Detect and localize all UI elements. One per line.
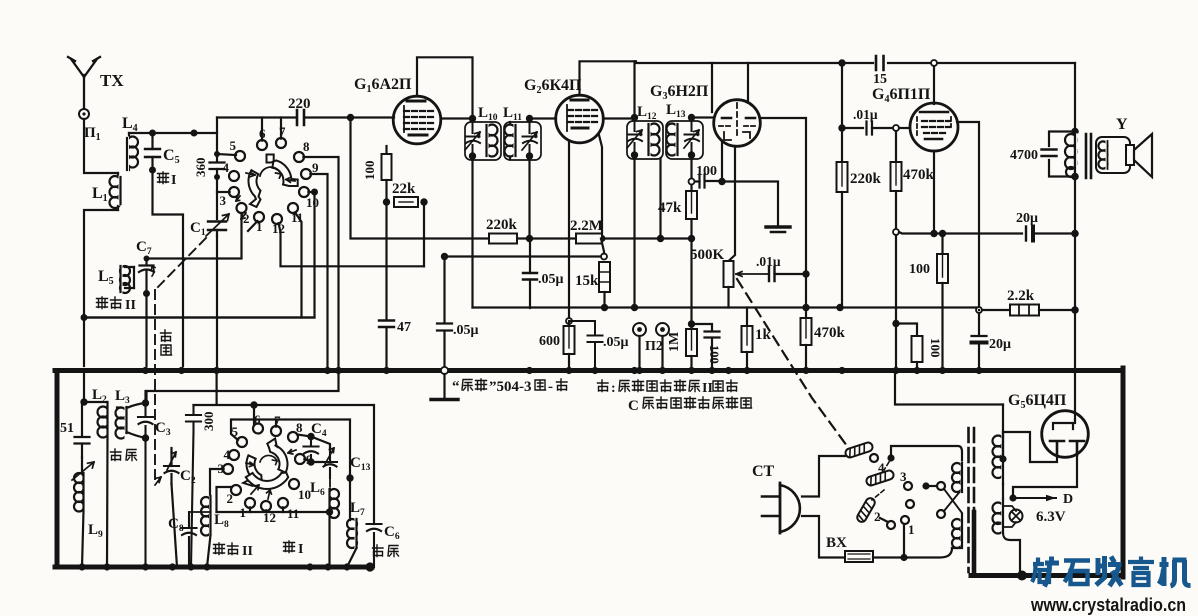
svg-text:TX: TX — [100, 71, 124, 90]
wire antenna down with L1 jog — [84, 119, 118, 366]
crossover wires — [944, 489, 962, 513]
wire L12 bottom down to screen row — [633, 155, 635, 308]
wire contact7' up — [275, 420, 277, 427]
svg-text:I: I — [171, 173, 176, 188]
bus open-circle junction — [441, 367, 448, 374]
node .01u left — [838, 124, 845, 131]
wire node to L2 — [84, 401, 107, 403]
node L10 bottom — [469, 152, 476, 159]
svg-text:470k: 470k — [903, 167, 935, 183]
wire plug top to selector — [802, 456, 845, 497]
wire L11 top to U2 grid — [530, 119, 557, 123]
capacitor C1 variable — [206, 177, 229, 236]
capacitor C6 — [367, 524, 382, 567]
coil L1 — [110, 173, 121, 210]
coil L6 — [329, 470, 339, 567]
watermark kuang shi shou yin ji — [1032, 556, 1191, 587]
resistor 22k — [394, 197, 418, 207]
node C4 top — [307, 433, 314, 440]
svg-text:300: 300 — [201, 412, 216, 432]
svg-text:360: 360 — [193, 158, 208, 178]
HV winding (right of core) — [993, 432, 1004, 484]
svg-text:20μ: 20μ — [1016, 211, 1038, 226]
svg-text:“: “ — [452, 379, 460, 395]
resistor 100 (screen) — [937, 234, 948, 367]
wire L11 bottom down to 220k row — [528, 156, 530, 239]
svg-text:47k: 47k — [658, 200, 682, 216]
wire U3 lower-left pin to 100 node — [721, 143, 723, 182]
node 100 right — [718, 178, 725, 185]
tube U2 internals — [567, 100, 597, 131]
svg-text:3: 3 — [900, 469, 907, 484]
node L12 top — [631, 114, 638, 121]
wire contact2' to L8 — [217, 487, 233, 512]
svg-text:C1: C1 — [190, 220, 206, 238]
junction open circle rail/U4 — [931, 60, 937, 66]
node .01u right — [802, 270, 809, 277]
coil L12 — [649, 124, 660, 156]
ground symbol below bus — [431, 374, 458, 400]
svg-text:100: 100 — [707, 345, 721, 364]
IF transformer T2 frames — [627, 121, 663, 159]
junction open circle cathode row left — [893, 229, 899, 235]
rail junction blob — [1017, 571, 1027, 581]
wire C1 line down to bus — [216, 236, 218, 366]
svg-text:2: 2 — [227, 491, 234, 506]
bottom-right thick rail — [971, 573, 1123, 578]
svg-text:C3: C3 — [155, 420, 171, 438]
svg-text:47: 47 — [397, 320, 411, 335]
trimmer cap L10 — [465, 122, 480, 156]
resistor 1M — [686, 324, 697, 366]
node L5 bottom — [143, 290, 150, 297]
svg-text:Π1: Π1 — [84, 125, 101, 143]
svg-text:22k: 22k — [392, 181, 416, 197]
wire U1 top cap loop to L10 — [417, 57, 473, 115]
tube U1 envelope — [393, 96, 441, 144]
node 51 top — [80, 398, 87, 405]
svg-text:1M: 1M — [667, 332, 682, 352]
T3 core — [1086, 134, 1091, 178]
jack П2 — [633, 323, 646, 366]
node L12 bottom — [631, 151, 638, 158]
node L11 top — [526, 115, 533, 122]
svg-text:II: II — [125, 298, 136, 313]
svg-text:2.2k: 2.2k — [1007, 288, 1035, 304]
coil L7 — [347, 478, 357, 567]
svg-text:L6: L6 — [310, 480, 325, 498]
wire U3 plates up to rail — [712, 63, 748, 112]
output transformer T3 primary — [1065, 128, 1079, 181]
wire fuse to transformer primary bottom — [904, 548, 952, 558]
svg-text:4: 4 — [224, 447, 231, 462]
coil L2 — [98, 402, 109, 567]
svg-text:.01μ: .01μ — [756, 254, 781, 269]
coil L13 — [667, 124, 678, 156]
svg-text:L9: L9 — [88, 522, 103, 540]
node selector 4 — [887, 454, 894, 461]
wire C5 bottom down jog to bus — [153, 170, 184, 366]
transformer primary winding upper — [952, 463, 962, 492]
node 2.2M right — [599, 235, 606, 242]
wire U5 right plate down to filament row — [1013, 455, 1077, 498]
wire 22k right down to AVC row — [423, 202, 425, 266]
tube U5 envelope — [1042, 411, 1089, 458]
transformer core right/chassis — [973, 428, 976, 512]
svg-text:9: 9 — [312, 160, 319, 175]
svg-text:15k: 15k — [575, 273, 599, 289]
node 22k left — [383, 198, 390, 205]
wire contact2 stub — [880, 518, 888, 522]
wire 470k line down to bus — [895, 235, 897, 366]
capacitor 300 — [186, 405, 201, 567]
coil L8 — [201, 496, 211, 567]
svg-text:1: 1 — [908, 522, 915, 537]
svg-text:G16А2П: G16А2П — [354, 76, 412, 95]
wire C7 to switch contact 2 — [147, 212, 242, 259]
label 短I — [158, 172, 177, 188]
rotary switch S1 rotor — [249, 155, 298, 208]
right thick border — [1121, 368, 1126, 577]
wire contact 9 right and down to bus — [310, 174, 327, 366]
wire grid node to U4 — [899, 127, 910, 129]
tube U5 internals — [1050, 423, 1084, 455]
wire L4 top from C5 node to switch area — [129, 132, 217, 134]
wire L10 bottom down to AGC row corner — [471, 156, 473, 308]
svg-text:11: 11 — [287, 506, 299, 521]
svg-text:470k: 470k — [814, 325, 846, 341]
wire contact 6 up — [261, 118, 263, 141]
wire node3 to crossover — [926, 485, 937, 487]
svg-text:www.crystalradio.cn: www.crystalradio.cn — [1030, 595, 1186, 615]
wire rail to U4 top — [933, 66, 935, 104]
resistor 220k — [489, 234, 517, 244]
svg-text:”504-3: ”504-3 — [489, 379, 532, 395]
label note line1 波段开关在短波II位置 — [598, 380, 738, 396]
coil box left border (thick) — [55, 371, 60, 568]
capacitor 220 — [297, 110, 351, 125]
D arrow — [1013, 495, 1056, 501]
svg-text:.05μ: .05μ — [538, 272, 564, 287]
svg-text:C8: C8 — [168, 516, 184, 534]
wire node down through 470k to bus — [805, 274, 807, 318]
coil L4 — [127, 133, 138, 170]
wire U2 cathode bypass: 600 resistor — [564, 321, 575, 366]
capacitor 51 — [75, 402, 90, 458]
svg-text:II: II — [242, 544, 253, 559]
wire contact 8 right and down to lower box — [147, 157, 339, 404]
svg-text:L1: L1 — [92, 185, 108, 204]
node L4 top — [149, 130, 156, 137]
wire filament bottom to blob — [1003, 533, 1020, 576]
svg-text:L8: L8 — [214, 512, 229, 530]
svg-text:220k: 220k — [850, 171, 882, 187]
node 2.2k right on B+ — [1071, 306, 1079, 314]
wire node to G1 grid — [351, 116, 395, 118]
svg-text:-: - — [548, 379, 553, 395]
capacitor 20u (electrolytic to bus) — [972, 336, 987, 366]
capacitor .05u AVC — [437, 257, 452, 367]
svg-text:II: II — [702, 381, 713, 396]
node L3 bottom — [142, 434, 149, 441]
transformer core dashed — [967, 428, 970, 572]
wire node up to contact 1p — [903, 524, 905, 558]
selector labels 4 3 2 1 — [874, 460, 915, 537]
svg-text:L3: L3 — [115, 388, 130, 406]
resistor 2.2k — [982, 305, 1072, 316]
wire 300 top to C1 line corner — [194, 371, 255, 406]
tube U2 envelope — [556, 95, 604, 143]
node cathode row 942 — [939, 230, 946, 237]
wire HV bottom continuation — [1002, 484, 1004, 499]
node input line left — [81, 314, 88, 321]
svg-text:1k: 1k — [755, 327, 772, 343]
selector dashed links — [872, 462, 889, 500]
resistor 2.2M — [576, 234, 602, 244]
wire 979 down to 20u — [978, 310, 980, 334]
wire plug bottom to fuse — [802, 516, 843, 558]
potentiometer 500K — [724, 261, 769, 308]
rotary switch S2 rotor — [243, 439, 288, 490]
svg-text:220k: 220k — [486, 217, 518, 233]
svg-text:I: I — [298, 542, 303, 557]
svg-text:.05μ: .05μ — [603, 335, 629, 350]
transformer primary winding lower — [952, 514, 962, 548]
svg-text:8: 8 — [303, 139, 310, 154]
svg-text:6.3V: 6.3V — [1036, 509, 1066, 525]
wire U2 top cap loop — [580, 61, 637, 95]
wire contact3' to L8 — [210, 469, 224, 496]
wire C4 bottom links — [311, 437, 330, 463]
speaker Y frame and coil — [1096, 137, 1130, 173]
node plate row 47k — [688, 235, 695, 242]
junction open circle 2.2k left — [976, 307, 982, 313]
node 220 right — [347, 114, 354, 121]
wire B+ into cathode — [1074, 420, 1076, 423]
rotary switch S1 contacts — [229, 138, 311, 224]
selector contact circles — [870, 454, 945, 529]
svg-text:G26К4П: G26К4П — [524, 77, 582, 96]
wire 47k node down to detector node — [690, 239, 692, 325]
svg-text:600: 600 — [539, 334, 560, 349]
wire U3 cathode down to 500K — [729, 146, 736, 261]
svg-text:L4: L4 — [122, 115, 138, 134]
wire center tap down to plate row — [659, 159, 661, 239]
trimmer cap L11 — [522, 122, 537, 156]
node П1 terminal — [79, 109, 89, 119]
wire U4 plate right down — [957, 122, 979, 308]
bus junction nodes — [142, 367, 983, 374]
wire contact 1 stub — [248, 221, 258, 231]
wire 15k bottom to screen row — [603, 292, 605, 308]
capacitor 100 (osc) — [692, 175, 720, 188]
node top rail 842 — [838, 59, 845, 66]
selector lever B (hatched) — [865, 469, 894, 486]
wire input line to switch contact 10 — [84, 195, 315, 318]
node L11 bottom junction — [526, 152, 533, 159]
wire antenna line below bus — [83, 371, 85, 403]
trimmer C2 — [164, 452, 179, 484]
coil L9 adjustable — [72, 457, 94, 567]
wire contact9' to C4 bottom — [304, 459, 311, 462]
capacitor C3 — [138, 403, 153, 567]
junction open circle G4 grid — [893, 125, 899, 131]
svg-text:.01μ: .01μ — [853, 107, 878, 122]
wire U2 cathode down to 600 — [568, 142, 570, 321]
wire contact 5 to 360 node — [217, 154, 236, 155]
resistor 47k — [686, 185, 697, 239]
wire L8 to L6 row — [217, 511, 330, 513]
tube U4 envelope — [910, 103, 958, 151]
node L6 tap — [326, 508, 333, 515]
label 短I — [284, 541, 304, 557]
resistor R100 (G1 cathode) — [382, 154, 392, 180]
svg-text:500K: 500K — [690, 247, 725, 263]
svg-text:3: 3 — [220, 193, 227, 208]
svg-text:4: 4 — [878, 460, 885, 475]
wire cathode row — [899, 232, 1022, 234]
wire node down to 220k row — [351, 118, 490, 239]
coil L3 — [116, 403, 146, 439]
wire node down to contact 6' — [253, 405, 255, 424]
svg-text:C7: C7 — [136, 239, 152, 257]
wire contact8 drop to L3 jog — [144, 391, 146, 403]
wire top row to 220 cap — [217, 116, 296, 118]
svg-text:L5: L5 — [98, 268, 114, 287]
pilot lamp — [1003, 506, 1023, 527]
ground bus (chassis) — [55, 368, 1123, 373]
wire U4 bottom to cathode row — [933, 151, 935, 234]
wire 2.2M right to 15k — [601, 239, 604, 254]
label 中波 (C6) — [373, 545, 399, 557]
label 双连 (rotated) — [161, 330, 172, 355]
wire contact5' up-left — [231, 420, 350, 479]
filament winding 6.3V — [993, 499, 1004, 534]
wire contacts 1' 11' 12' drops — [250, 507, 283, 512]
tube U3 internals — [719, 103, 755, 140]
wire U1 plate right to L10 top — [441, 117, 473, 119]
svg-text:2: 2 — [874, 509, 881, 524]
wire contact8' to C4 — [297, 435, 311, 437]
wire down to HV tap node — [1002, 405, 1004, 460]
label 中波 — [111, 449, 137, 461]
resistor 220k (AF) — [837, 131, 848, 308]
rotary switch S2 contacts — [223, 424, 305, 512]
junction small circle 600 top — [566, 318, 572, 324]
capacitor .01u (volume) — [769, 267, 806, 281]
wire node4 to primary top — [891, 446, 962, 463]
resistor 470k (grid) — [891, 131, 902, 229]
wire contact 11 down — [295, 212, 302, 317]
svg-text:51: 51 — [60, 421, 74, 436]
node B+ 233 — [1071, 230, 1079, 238]
wire contact 10 to node — [84, 192, 315, 318]
wire L13 top to U3 grid — [692, 118, 715, 122]
wire U1 cathode to R 100 — [385, 146, 387, 154]
wire L5 bottom to ground bus — [145, 294, 147, 367]
wire osc node right — [254, 405, 374, 524]
svg-text:.05μ: .05μ — [453, 323, 479, 338]
tube U1 internals — [404, 101, 433, 135]
node C4 bottom — [307, 458, 314, 465]
svg-text:BX: BX — [826, 535, 847, 551]
coil L11 — [505, 122, 516, 159]
coil L10 — [487, 125, 498, 157]
svg-text:G36Н2П: G36Н2П — [650, 83, 709, 102]
wire U3 right plate to .01u node — [760, 118, 807, 271]
speaker cone — [1126, 134, 1152, 177]
svg-text:15: 15 — [873, 72, 887, 87]
switch pin labels 1-12 — [220, 124, 320, 236]
svg-text:100: 100 — [928, 338, 943, 358]
svg-text:Π2: Π2 — [645, 339, 663, 354]
resistor 470k lower — [801, 318, 812, 366]
wire 100 right to ground — [720, 182, 779, 227]
wire L13 bottom to 100 cap node — [690, 155, 692, 178]
svg-text::: : — [611, 381, 616, 396]
node screen row 806 — [802, 304, 809, 311]
wire 22k left down to 47 cap to bus — [385, 202, 387, 320]
svg-text:2.2M: 2.2M — [570, 218, 603, 234]
capacitor .05u symbol at row (label right) — [523, 239, 537, 309]
node 100 tap — [892, 320, 899, 327]
wire top rail G3 to output — [636, 62, 1075, 64]
wire U5 left plate loop to HV top — [1003, 432, 1057, 462]
coil L5 — [120, 266, 134, 293]
node HV tap — [999, 455, 1006, 462]
capacitor C7 — [139, 256, 155, 294]
node cathode row 934 — [930, 230, 937, 237]
trimmer C13 — [323, 448, 337, 478]
fuse BX — [845, 551, 904, 562]
label 短波II — [97, 297, 136, 313]
svg-text:20μ: 20μ — [989, 337, 1011, 352]
svg-text:L11: L11 — [503, 105, 522, 123]
dashed gang line to power switch — [737, 279, 847, 446]
node AVC left — [441, 253, 448, 260]
node at x194 on wire — [191, 130, 198, 137]
node 22k right — [420, 198, 427, 205]
svg-text:2: 2 — [243, 211, 250, 226]
junction open circle 100 left — [689, 179, 695, 185]
svg-text:L7: L7 — [350, 500, 365, 518]
dashed gang line C1 to lower — [155, 238, 206, 480]
capacitor .05u cathode — [569, 321, 603, 366]
node fuse right — [900, 554, 907, 561]
svg-text:100: 100 — [909, 262, 930, 277]
node L13 top — [688, 114, 695, 121]
ground symbol — [766, 227, 790, 232]
tube U3 envelope — [714, 100, 761, 147]
svg-text:L12: L12 — [637, 104, 657, 122]
wire AVC row — [445, 255, 605, 257]
capacitor C8 — [182, 512, 211, 567]
svg-text:G56Ц4П: G56Ц4П — [1008, 392, 1067, 411]
wire contact 3 to C1 line — [217, 191, 230, 193]
node filament/D — [1009, 494, 1016, 501]
svg-text:L10: L10 — [478, 105, 498, 123]
node 220k/down — [526, 235, 533, 242]
node L10 top — [469, 115, 476, 122]
label note line2 C 无参数者均为补偿 — [628, 397, 752, 414]
tube U4 internals — [917, 112, 951, 139]
node L4 bottom — [149, 167, 156, 174]
capacitor 15 (series in rail) — [876, 56, 884, 70]
wire U2 plate to L12 node — [603, 117, 635, 119]
trimmer cap L12 — [627, 121, 642, 155]
node screen row 840 — [836, 304, 843, 311]
wire B+ vertical — [1074, 63, 1076, 420]
